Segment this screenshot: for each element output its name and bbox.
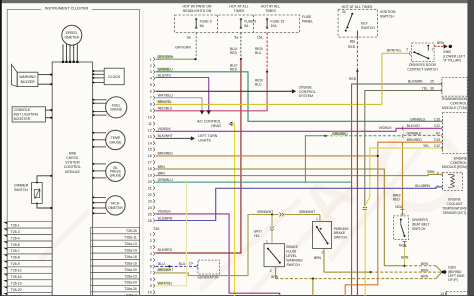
svg-text:T26a-14: T26a-14 (124, 248, 137, 252)
svg-text:T26-26: T26-26 (126, 229, 137, 233)
wire oil gauge (93, 163, 106, 165)
svg-text:5A: 5A (200, 24, 205, 28)
tachometer (106, 196, 125, 215)
svg-text:RED: RED (349, 77, 357, 81)
wire GRN/RED branch to ECM A7 (305, 136, 325, 182)
wire BRN/WHT T26a-7 to brake switches (157, 268, 170, 272)
svg-text:T26-12: T26-12 (11, 269, 22, 273)
svg-text:VIO/BLK: VIO/BLK (379, 126, 393, 130)
wire tach (93, 207, 106, 209)
svg-text:T26-1: T26-1 (11, 223, 20, 227)
svg-text:CLOCK: CLOCK (108, 75, 121, 79)
wire temp gauge (93, 139, 106, 141)
svg-text:CHECK: CHECK (66, 156, 79, 160)
scan border bottom (0, 294, 474, 296)
svg-text:5a: 5a (234, 36, 238, 40)
fuse F5 5A (240, 19, 242, 28)
svg-text:MINI: MINI (69, 151, 76, 155)
svg-text:D+: D+ (189, 261, 193, 265)
svg-text:GRN/BLU: GRN/BLU (158, 67, 174, 71)
svg-text:WARNING: WARNING (19, 75, 36, 79)
ECT sensor box (443, 173, 463, 191)
svg-text:GAUGE: GAUGE (110, 108, 123, 112)
svg-text:LIGHTS: LIGHTS (198, 138, 211, 142)
svg-text:“A” PILLAR): “A” PILLAR) (443, 59, 461, 63)
svg-text:86s: 86s (350, 39, 356, 43)
svg-text:FLUID: FLUID (286, 250, 296, 254)
svg-text:T26a-13: T26a-13 (124, 242, 137, 246)
svg-text:BRN: BRN (427, 170, 435, 174)
junction (403, 265, 405, 267)
svg-text:HEADLIGHTS ON: HEADLIGHTS ON (183, 9, 212, 13)
svg-text:BLU: BLU (179, 262, 186, 266)
svg-text:T26: T26 (153, 227, 159, 231)
svg-text:SWITCH: SWITCH (361, 26, 375, 30)
svg-text:BLK/VIO: BLK/VIO (407, 124, 421, 128)
svg-text:T26a-24: T26a-24 (124, 281, 137, 285)
svg-text:FUSE: FUSE (302, 15, 312, 19)
wire buzzer-1 (38, 74, 52, 76)
svg-text:3: 3 (150, 245, 152, 249)
fuse panel box (175, 15, 300, 33)
svg-text:T26-16: T26-16 (11, 275, 22, 279)
svg-text:BRAKE: BRAKE (334, 231, 346, 235)
svg-text:18: 18 (148, 167, 152, 171)
svg-text:SENSOR (ECT): SENSOR (ECT) (443, 211, 467, 215)
wire fuel gauge (93, 99, 107, 101)
svg-text:SYSTEM: SYSTEM (299, 94, 313, 98)
svg-text:RED: RED (230, 51, 238, 55)
svg-text:SEAT BELT: SEAT BELT (412, 223, 430, 227)
svg-text:PARKING: PARKING (334, 227, 349, 231)
junction (377, 155, 379, 157)
svg-text:BOOSTER: BOOSTER (14, 117, 31, 121)
svg-text:21: 21 (148, 187, 152, 191)
svg-text:TIMES: TIMES (234, 9, 245, 13)
svg-text:T26a-23: T26a-23 (124, 274, 137, 278)
wire speedometer lead 4 (73, 44, 75, 62)
inline connector upper (401, 210, 405, 215)
speedometer (62, 25, 82, 45)
svg-text:17: 17 (148, 161, 152, 165)
svg-text:T26-7: T26-7 (11, 249, 20, 253)
svg-text:BLU: BLU (255, 83, 262, 87)
svg-text:SWITCH: SWITCH (14, 188, 28, 192)
svg-text:RED/BLU: RED/BLU (158, 107, 173, 111)
svg-text:30: 30 (342, 10, 346, 14)
wire temp gauge (93, 132, 106, 134)
svg-text:1: 1 (316, 217, 318, 221)
svg-text:16: 16 (148, 154, 152, 158)
svg-text:22: 22 (148, 193, 152, 197)
wire BLU/RED fuse5 drop (240, 33, 242, 60)
wire clock (93, 73, 105, 75)
inline connector lower (403, 242, 407, 247)
junction (370, 271, 372, 273)
wire BRN brake fluid to ground (275, 267, 277, 279)
svg-text:HOT AT ALL TIMES: HOT AT ALL TIMES (342, 5, 373, 9)
svg-text:VIO/BLK: VIO/BLK (158, 210, 172, 214)
svg-text:A7: A7 (436, 131, 440, 135)
ECM box (443, 113, 468, 154)
svg-text:BRN: BRN (158, 171, 166, 175)
svg-text:6: 6 (150, 90, 152, 94)
svg-text:GRY/GRN: GRY/GRN (158, 55, 174, 59)
svg-text:BLK/BRN: BLK/BRN (408, 79, 423, 83)
svg-text:CONTACT SWITCH: CONTACT SWITCH (407, 68, 438, 72)
svg-text:CONTROL: CONTROL (299, 90, 316, 94)
wire tach (93, 202, 106, 204)
svg-text:10A: 10A (271, 24, 278, 28)
wire BRN parking brake to ground (324, 249, 371, 273)
connector fragment bottom right (447, 292, 468, 296)
svg-text:BRAKE: BRAKE (286, 245, 298, 249)
svg-text:MODULE (TCM): MODULE (TCM) (442, 106, 467, 110)
svg-text:SWITCH: SWITCH (380, 15, 394, 19)
wire BLK pin6 cruise control (156, 90, 294, 92)
svg-text:BRN/RED: BRN/RED (158, 152, 174, 156)
svg-text:BRN/WHT: BRN/WHT (299, 210, 315, 214)
svg-text:BRN/YEL: BRN/YEL (387, 49, 402, 53)
svg-text:13: 13 (148, 135, 152, 139)
connector strip T26 left (7, 222, 52, 228)
wire WHT/YEL T26a-9 (157, 281, 170, 285)
svg-text:TEMPERATURE: TEMPERATURE (442, 206, 467, 210)
svg-text:HEAD: HEAD (211, 124, 221, 128)
svg-text:3a: 3a (187, 36, 191, 40)
wire oil gauge (93, 170, 106, 172)
svg-text:15: 15 (148, 148, 152, 152)
svg-text:IGNITION: IGNITION (380, 10, 396, 14)
wire BRN/YEL vertical to door switch (381, 53, 383, 104)
svg-text:YEL: YEL (423, 144, 430, 148)
wire (436, 273, 441, 279)
svg-text:SYSTEM: SYSTEM (65, 161, 79, 165)
ground G202 (440, 270, 443, 273)
svg-text:BRN: BRN (314, 256, 322, 260)
svg-text:T26a-26: T26a-26 (124, 287, 137, 291)
svg-text:BRN: BRN (158, 165, 166, 169)
wire BRN/YEL pin8 (157, 100, 170, 104)
svg-text:MODULE: MODULE (65, 170, 81, 174)
svg-text:26: 26 (148, 219, 152, 223)
svg-text:BLU/VIO: BLU/VIO (158, 73, 172, 77)
svg-text:BLU: BLU (158, 262, 165, 266)
svg-text:WARNING: WARNING (286, 259, 303, 263)
svg-text:A/C CONTROL: A/C CONTROL (197, 120, 221, 124)
svg-text:C13: C13 (434, 138, 440, 142)
svg-text:NCA: NCA (399, 244, 407, 248)
seat belt switch box (393, 216, 408, 240)
wire speedometer lead 2 (66, 44, 68, 62)
svg-text:GRN/RED: GRN/RED (332, 132, 348, 136)
svg-text:BRN: BRN (421, 262, 429, 266)
svg-text:COOLANT: COOLANT (447, 202, 463, 206)
svg-text:1: 1 (432, 47, 434, 51)
svg-text:PANEL: PANEL (302, 20, 313, 24)
svg-text:9: 9 (150, 284, 152, 288)
svg-text:T26-8: T26-8 (11, 256, 20, 260)
svg-text:7: 7 (150, 271, 152, 275)
svg-text:RED: RED (348, 45, 356, 49)
ECT resistor (448, 174, 454, 187)
ignition switch box (338, 9, 378, 37)
svg-text:11: 11 (148, 122, 152, 126)
svg-text:BRN: BRN (401, 255, 409, 259)
scan border left (0, 0, 2, 296)
svg-text:10: 10 (148, 115, 152, 119)
page crease line (142, 10, 144, 294)
junction (168, 265, 170, 267)
svg-text:TRANSMISSION: TRANSMISSION (441, 97, 467, 101)
svg-text:OF IP): OF IP) (448, 278, 458, 282)
svg-text:BRN: BRN (421, 275, 429, 279)
wire clock (93, 82, 105, 84)
svg-text:BLU: BLU (255, 51, 262, 55)
svg-text:23: 23 (148, 199, 152, 203)
svg-text:BRN/YEL: BRN/YEL (158, 100, 173, 104)
svg-text:2: 2 (406, 48, 408, 52)
wire dimmer bottom (37, 203, 52, 208)
svg-text:OMETER: OMETER (108, 206, 123, 210)
wire speedometer lead 1 (62, 44, 64, 62)
svg-text:GENERATOR: GENERATOR (197, 276, 219, 280)
wire (436, 266, 441, 271)
svg-text:BLK/RED: BLK/RED (158, 248, 173, 252)
svg-text:5: 5 (150, 83, 152, 87)
svg-text:KEY: KEY (361, 21, 369, 25)
wire temp gauge (93, 146, 106, 148)
svg-text:6: 6 (150, 265, 152, 269)
svg-text:T26a-19: T26a-19 (124, 261, 137, 265)
wire clock (93, 70, 105, 72)
svg-text:BRN: BRN (421, 268, 429, 272)
inline connector (279, 213, 283, 217)
svg-text:FUSE 9: FUSE 9 (200, 19, 212, 23)
svg-text:1: 1 (150, 232, 152, 236)
fuel gauge (106, 97, 127, 118)
svg-text:1: 1 (266, 240, 268, 244)
svg-text:36: 36 (430, 86, 434, 90)
wire tach (93, 212, 106, 214)
svg-text:3: 3 (150, 70, 152, 74)
svg-text:CONTROL: CONTROL (450, 102, 467, 106)
junction (240, 58, 242, 60)
svg-text:DRIVER'S: DRIVER'S (412, 218, 428, 222)
svg-text:RED: RED (230, 68, 238, 72)
svg-text:WHT/YEL: WHT/YEL (158, 281, 173, 285)
svg-text:1: 1 (150, 57, 152, 61)
svg-text:T26-19: T26-19 (11, 282, 22, 286)
wire tach (93, 196, 106, 198)
svg-text:12: 12 (148, 128, 152, 132)
svg-text:CRUISE: CRUISE (299, 85, 313, 89)
scan border top (0, 0, 474, 3)
junction (194, 58, 196, 60)
splice squiggle (363, 208, 367, 210)
svg-text:14: 14 (148, 141, 152, 145)
wire BLU/RED vertical to T26a-4 BLK/RED (156, 59, 241, 253)
wire speedometer lead 3 (69, 44, 71, 62)
svg-text:BLU/BRN: BLU/BRN (158, 216, 173, 220)
svg-text:13: 13 (440, 292, 444, 296)
wire BRN/RED lower branch (345, 156, 378, 296)
svg-text:WHT/BLU: WHT/BLU (158, 94, 174, 98)
svg-text:15a: 15a (257, 36, 263, 40)
svg-text:BLU/BRN: BLU/BRN (415, 184, 430, 188)
wire dimmer top (37, 176, 52, 183)
svg-text:GRN/BLU: GRN/BLU (410, 117, 426, 121)
svg-text:LEVEL: LEVEL (286, 254, 297, 258)
svg-text:10: 10 (148, 291, 152, 295)
svg-text:GRY/GRN: GRY/GRN (175, 45, 191, 49)
svg-text:BRN/WHT: BRN/WHT (257, 210, 273, 214)
svg-text:SWITCH: SWITCH (412, 227, 426, 231)
svg-text:RED: RED (393, 198, 401, 202)
junction (324, 135, 326, 137)
svg-text:CONTROL: CONTROL (450, 161, 467, 165)
junction (266, 71, 268, 73)
svg-text:BRN/RED: BRN/RED (407, 138, 423, 142)
svg-text:4: 4 (150, 77, 152, 81)
svg-text:DIMMER: DIMMER (14, 183, 29, 187)
junction (271, 213, 273, 215)
clock (104, 68, 124, 85)
instrument cluster outer box (7, 10, 139, 296)
svg-text:ENGINE: ENGINE (448, 198, 461, 202)
svg-text:T26-9: T26-9 (11, 262, 20, 266)
svg-text:INST LIGHTING: INST LIGHTING (14, 113, 39, 117)
svg-text:7: 7 (150, 96, 152, 100)
fuse F9 5A (195, 19, 197, 28)
TCM box (442, 77, 467, 96)
svg-text:NCA: NCA (395, 205, 403, 209)
wire booster-1 (46, 109, 53, 111)
driver door contact switch box (412, 43, 435, 62)
warning buzzer (11, 64, 17, 86)
svg-text:GAUGE: GAUGE (110, 173, 122, 177)
svg-text:FUSE 15: FUSE 15 (271, 19, 285, 23)
key switch contacts (351, 13, 353, 15)
svg-text:YEL: YEL (422, 86, 429, 90)
svg-text:5A: 5A (244, 24, 249, 28)
watermark (40, 132, 458, 295)
svg-text:8: 8 (150, 278, 152, 282)
svg-text:19: 19 (148, 174, 152, 178)
svg-text:OMETER: OMETER (65, 35, 80, 39)
svg-text:YEL: YEL (254, 234, 260, 238)
generator box (198, 260, 220, 274)
svg-text:BUZZER: BUZZER (21, 80, 35, 84)
svg-text:TIMES: TIMES (265, 9, 276, 13)
instrument cluster main module block (52, 62, 92, 296)
svg-text:T26a-18: T26a-18 (124, 255, 137, 259)
svg-text:FUSE 5: FUSE 5 (244, 19, 256, 23)
wire fuel gauge (93, 102, 107, 104)
wire clock (93, 77, 105, 79)
junction (356, 70, 358, 72)
svg-text:ENGINE: ENGINE (454, 156, 468, 160)
temp gauge (106, 130, 125, 149)
svg-text:2: 2 (270, 269, 272, 273)
svg-text:4: 4 (150, 252, 152, 256)
wire buzzer-2 (38, 83, 52, 85)
wire BRN/RED branch to seat belt (402, 142, 404, 209)
svg-text:20: 20 (148, 180, 152, 184)
svg-text:CONTROL: CONTROL (64, 165, 81, 169)
wire speedometer lead 5 (76, 44, 78, 62)
svg-text:2: 2 (150, 64, 152, 68)
svg-text:T26-3: T26-3 (11, 230, 20, 234)
brake fluid level warning switch box (264, 244, 285, 267)
wire booster-2 (46, 117, 53, 119)
connector strip T26a right (91, 227, 140, 233)
svg-text:DRIVER'S DOOR: DRIVER'S DOOR (409, 63, 436, 67)
svg-text:T26a-20: T26a-20 (124, 268, 137, 272)
svg-text:25: 25 (430, 79, 434, 83)
scan border right (467, 0, 474, 296)
svg-text:BRN: BRN (437, 41, 445, 45)
wire GRN/BLU pin3 to ECM C16 (157, 67, 170, 71)
oil pressure gauge (106, 162, 125, 181)
svg-text:MODULE (ECM): MODULE (ECM) (442, 165, 467, 169)
svg-text:BRN/WHT: BRN/WHT (158, 268, 174, 272)
wire YEL to A/C head (228, 122, 232, 126)
svg-text:GRN/BLU: GRN/BLU (158, 178, 174, 182)
svg-text:SWITCH: SWITCH (334, 236, 348, 240)
svg-text:CONSOLE: CONSOLE (14, 108, 31, 112)
svg-text:BLK/WHT: BLK/WHT (158, 134, 173, 138)
svg-text:2: 2 (322, 251, 324, 255)
wire GRY/GRN pin1 (157, 55, 170, 59)
svg-text:T26a-11: T26a-11 (124, 236, 136, 240)
svg-text:5: 5 (150, 258, 152, 262)
svg-text:9: 9 (150, 109, 152, 113)
junction (312, 278, 314, 280)
fuse F15 10A (266, 19, 268, 28)
svg-text:8: 8 (150, 103, 152, 107)
svg-text:SWITCH: SWITCH (286, 263, 300, 267)
svg-text:2: 2 (150, 239, 152, 243)
svg-text:GAUGE: GAUGE (109, 140, 122, 144)
svg-text:C22: C22 (434, 124, 440, 128)
parking brake switch box (313, 221, 332, 248)
svg-text:T26-6: T26-6 (11, 243, 20, 247)
console inst lighting booster (12, 107, 45, 122)
svg-text:C12: C12 (434, 144, 440, 148)
svg-text:INSTRUMENT CLUSTER: INSTRUMENT CLUSTER (45, 7, 89, 11)
svg-text:LEFT TURN: LEFT TURN (198, 134, 218, 138)
wire fuel gauge (93, 111, 107, 113)
svg-text:GRN/BLK: GRN/BLK (407, 131, 423, 135)
wire RED fuse15 drop (266, 33, 268, 72)
wire GRY/GRN fuse9 drop (195, 33, 197, 59)
svg-text:24: 24 (148, 206, 152, 210)
svg-text:VIO/BLK: VIO/BLK (158, 127, 172, 131)
wire oil gauge (93, 177, 106, 179)
wire fuel gauge (93, 114, 107, 116)
svg-text:T26-20: T26-20 (11, 288, 22, 292)
svg-text:T26-4: T26-4 (11, 236, 20, 240)
svg-text:25: 25 (148, 212, 152, 216)
ground G900 (444, 44, 448, 48)
svg-text:C16: C16 (434, 117, 440, 121)
